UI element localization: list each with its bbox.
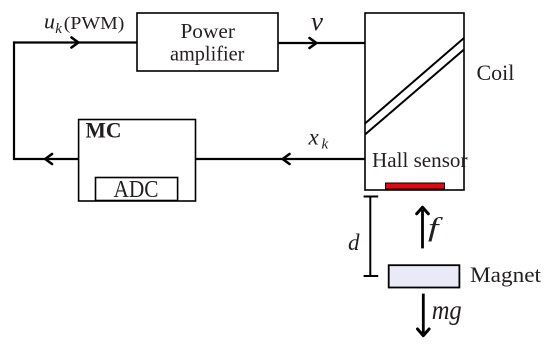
wire: top feedback horizontal to power amplifier xyxy=(14,41,137,43)
magnet xyxy=(389,265,460,287)
arrowhead on v wire (pointing right) xyxy=(310,38,317,48)
svg-text:amplifier: amplifier xyxy=(170,42,245,66)
wire x_k: hall sensor to MC xyxy=(196,158,365,160)
svg-text:x: x xyxy=(308,125,320,150)
arrowhead up xyxy=(417,207,429,214)
svg-text:Coil: Coil xyxy=(477,60,515,85)
arrowhead pointing left on MC output wire xyxy=(45,154,52,164)
block Power amplifier xyxy=(137,13,278,71)
wire v: power amplifier to coil xyxy=(278,42,365,44)
svg-text:u: u xyxy=(44,9,55,34)
svg-text:ADC: ADC xyxy=(114,177,159,203)
svg-text:v: v xyxy=(311,7,323,36)
svg-text:Magnet: Magnet xyxy=(470,262,542,287)
svg-text:mg: mg xyxy=(432,295,462,325)
svg-text:k: k xyxy=(322,136,329,152)
block ADC xyxy=(96,178,178,201)
svg-text:Power: Power xyxy=(180,19,235,43)
wire: left vertical feedback line xyxy=(13,41,15,160)
wire: MC output to feedback line xyxy=(13,158,79,160)
arrowhead pointing left on x_k wire xyxy=(283,154,290,164)
weight arrow mg (down) xyxy=(422,294,425,333)
block MC xyxy=(79,120,196,202)
block coil / hall sensor xyxy=(365,13,464,190)
force arrow f (up) xyxy=(421,210,424,248)
coil winding diagonal 2 xyxy=(365,50,464,135)
arrowhead on u_k wire (pointing right) xyxy=(72,38,79,48)
hall sensor element (red bar) xyxy=(386,183,445,189)
svg-text:d: d xyxy=(348,230,360,255)
svg-text:Hall sensor: Hall sensor xyxy=(372,148,468,172)
arrowhead down xyxy=(418,329,430,336)
coil winding diagonal 1 xyxy=(365,38,464,124)
svg-text:(PWM): (PWM) xyxy=(64,13,125,33)
dimension line d (vertical with end ticks) xyxy=(364,197,379,277)
svg-text:k: k xyxy=(55,21,62,37)
svg-text:MC: MC xyxy=(86,118,122,143)
